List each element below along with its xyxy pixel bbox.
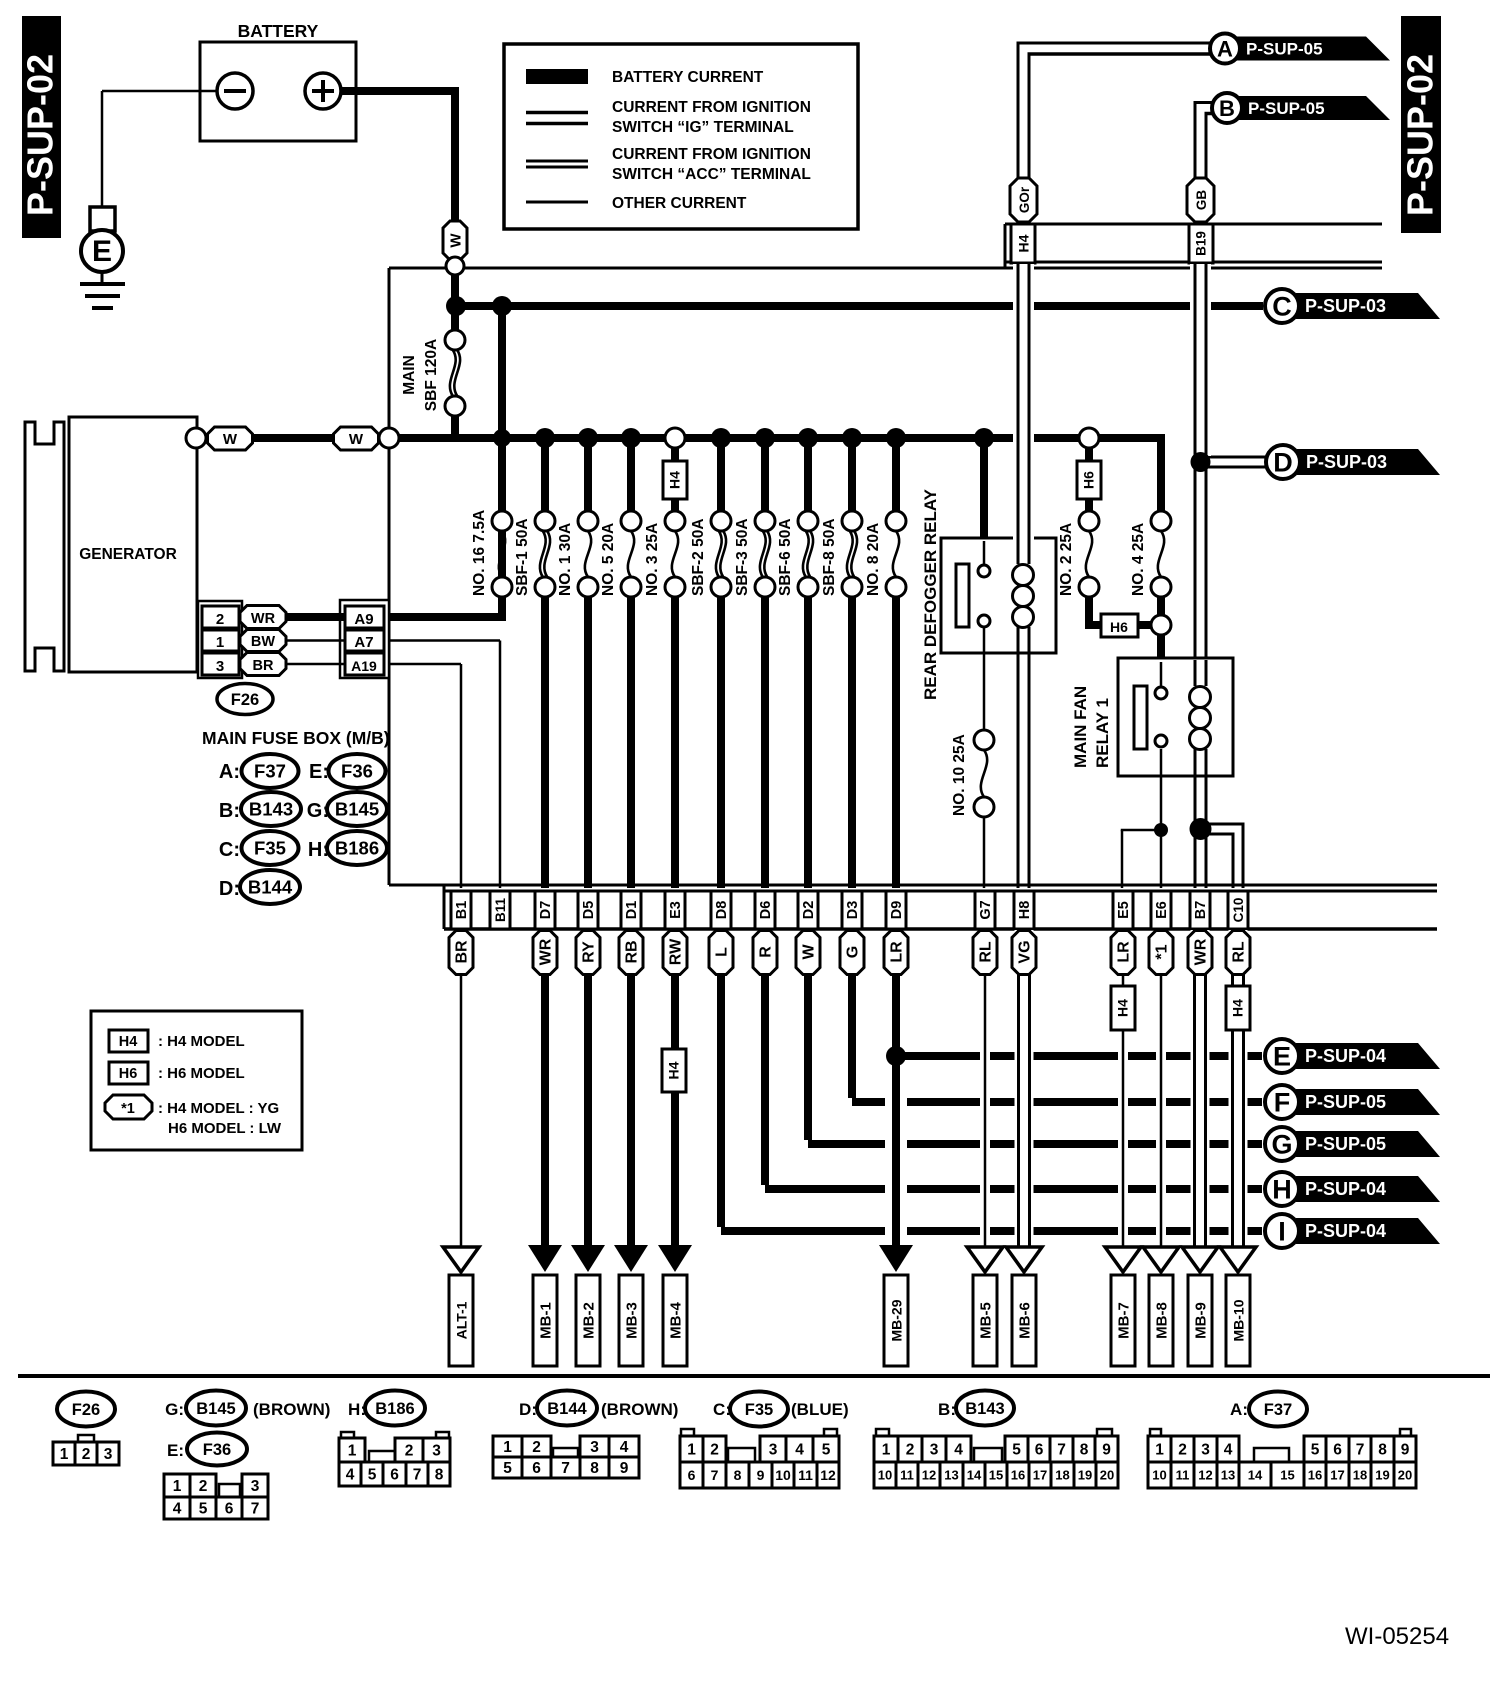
model legend box: [91, 1011, 302, 1150]
wire D9 to MB-29: [885, 1066, 907, 1240]
svg-text:2: 2: [710, 1442, 719, 1459]
svg-text:E:: E:: [167, 1441, 184, 1460]
svg-text:W: W: [223, 431, 238, 448]
svg-text:H6: H6: [1110, 619, 1128, 635]
fuse box terminal block A9 A7 A19: [340, 600, 389, 678]
svg-text:MB-2: MB-2: [581, 1302, 598, 1339]
svg-text:9: 9: [757, 1467, 765, 1483]
svg-text:P-SUP-05: P-SUP-05: [1248, 99, 1325, 118]
connector F35 pinout: [680, 1429, 839, 1488]
svg-text:F36: F36: [341, 761, 373, 782]
strip terminal D2: [798, 891, 818, 929]
svg-text:BATTERY: BATTERY: [238, 21, 319, 41]
svg-text:11: 11: [1176, 1468, 1190, 1483]
svg-text:12: 12: [1198, 1468, 1212, 1483]
svg-text:REAR DEFOGGER RELAY: REAR DEFOGGER RELAY: [921, 488, 940, 700]
svg-text:F37: F37: [254, 761, 286, 782]
fuse SBF-8 50A: [821, 428, 862, 888]
svg-text:RB: RB: [624, 940, 641, 963]
svg-text:D3: D3: [845, 901, 861, 920]
svg-text:F36: F36: [203, 1441, 231, 1459]
svg-text:(BLUE): (BLUE): [791, 1400, 849, 1419]
svg-text:H6: H6: [119, 1066, 138, 1082]
wire color LR: [884, 931, 908, 975]
wire WR to A9 (battery current): [286, 613, 345, 621]
svg-text:NO. 16 7.5A: NO. 16 7.5A: [471, 510, 488, 596]
svg-text:1: 1: [687, 1442, 696, 1459]
wire A9 to fuse NO.16: [389, 306, 506, 617]
svg-text:B: B: [1219, 96, 1235, 121]
svg-text:10: 10: [878, 1468, 892, 1483]
svg-text:GENERATOR: GENERATOR: [79, 546, 177, 563]
flag H P-SUP-04: [1265, 1172, 1440, 1206]
connector W (generator side): [208, 427, 253, 450]
svg-text:A:: A:: [219, 761, 240, 783]
svg-text:A19: A19: [351, 658, 377, 674]
connector W (battery feed): [443, 221, 467, 260]
connector B143 pinout: [874, 1429, 1118, 1488]
wire battery negative to ground: [102, 91, 217, 207]
svg-text:MB-6: MB-6: [1017, 1302, 1034, 1339]
terminal MB-4: [658, 1245, 692, 1366]
wire color BR (generator pin 3): [240, 653, 286, 676]
svg-text:H6: H6: [1081, 471, 1097, 489]
svg-text:NO. 10 25A: NO. 10 25A: [951, 734, 968, 816]
svg-text:NO. 5 20A: NO. 5 20A: [600, 523, 617, 596]
svg-text:NO. 3 25A: NO. 3 25A: [644, 523, 661, 596]
svg-text:G: G: [845, 946, 862, 958]
svg-text:F: F: [1274, 1088, 1291, 1118]
flag G P-SUP-05: [1265, 1127, 1440, 1161]
svg-text:5: 5: [822, 1442, 831, 1459]
connector B186 pinout: [339, 1432, 450, 1486]
connector W (fuse box side): [334, 427, 379, 450]
wire battery current to flag C: [456, 302, 1263, 310]
H6 model box 2: [1101, 614, 1138, 637]
wire D6 to flag H: [765, 929, 1262, 1189]
wire to MB-1: [541, 929, 549, 1245]
svg-text:C: C: [1272, 292, 1292, 322]
svg-text:LR: LR: [1116, 941, 1133, 963]
svg-text:E6: E6: [1154, 901, 1170, 919]
connector terminal B19: [1189, 224, 1213, 263]
terminal ALT-1: [443, 1247, 479, 1366]
strip terminal D3: [842, 891, 862, 929]
strip terminal D5: [578, 891, 598, 929]
svg-text:MAIN FAN: MAIN FAN: [1071, 686, 1090, 768]
svg-text:GOr: GOr: [1017, 186, 1032, 213]
connector B144 pinout: [493, 1436, 639, 1478]
battery: [200, 21, 356, 141]
svg-text:ALT-1: ALT-1: [454, 1301, 470, 1339]
junction flag D: [1191, 452, 1211, 472]
svg-text:BR: BR: [454, 940, 471, 964]
wire H6 box to main fan relay: [1138, 615, 1171, 635]
svg-text:12: 12: [922, 1468, 936, 1483]
svg-text:P-SUP-05: P-SUP-05: [1246, 40, 1323, 59]
svg-text:F37: F37: [1264, 1401, 1292, 1419]
connector F26 label: [217, 684, 273, 715]
H6 model box: [1077, 461, 1101, 499]
svg-text:H4: H4: [1016, 234, 1032, 252]
svg-text:1: 1: [503, 1439, 512, 1456]
svg-text:6: 6: [1333, 1442, 1342, 1459]
svg-text:P-SUP-04: P-SUP-04: [1305, 1179, 1386, 1199]
fuse NO. 2 25A: [1058, 499, 1099, 597]
flag B P-SUP-05: [1212, 93, 1390, 123]
svg-text:2: 2: [906, 1442, 915, 1459]
svg-text:1: 1: [348, 1443, 357, 1460]
svg-text:P-SUP-02: P-SUP-02: [1400, 54, 1441, 216]
svg-text:11: 11: [798, 1467, 813, 1483]
svg-text:H4: H4: [119, 1034, 138, 1050]
svg-text:WR: WR: [1193, 938, 1210, 965]
svg-text:G: G: [1271, 1130, 1292, 1160]
svg-text:7: 7: [413, 1467, 422, 1484]
svg-text:P-SUP-04: P-SUP-04: [1305, 1221, 1386, 1241]
wire C10 to MB-10: [1229, 930, 1248, 1247]
svg-text:SBF-8 50A: SBF-8 50A: [821, 518, 838, 596]
svg-text:D5: D5: [581, 901, 597, 920]
svg-text:C10: C10: [1231, 898, 1246, 923]
svg-text:OTHER CURRENT: OTHER CURRENT: [612, 195, 747, 212]
svg-text:1: 1: [216, 634, 224, 651]
svg-text:WI-05254: WI-05254: [1345, 1623, 1449, 1650]
wire fuse NO.2 to H6 box: [1085, 597, 1101, 629]
svg-text:4: 4: [1224, 1442, 1233, 1459]
wire D3 to flag F: [852, 929, 1262, 1102]
svg-text:RW: RW: [668, 938, 685, 965]
svg-text:4: 4: [954, 1442, 963, 1459]
svg-text:D6: D6: [758, 901, 774, 920]
svg-text:RY: RY: [581, 941, 598, 963]
svg-text:5: 5: [503, 1460, 512, 1477]
strip terminal D9: [886, 891, 906, 929]
fuse NO. 4 25A: [1130, 438, 1171, 597]
svg-text:18: 18: [1353, 1468, 1367, 1483]
svg-text:H: H: [1272, 1175, 1292, 1205]
strip terminal B1: [451, 891, 471, 929]
terminal MB-8: [1143, 1247, 1179, 1366]
wire BW to A7: [286, 639, 345, 642]
wire color GOr: [1010, 178, 1037, 222]
generator pin block: [198, 601, 242, 678]
svg-text:2: 2: [532, 1439, 541, 1456]
connector F35 label: [713, 1392, 849, 1427]
svg-text:10: 10: [775, 1467, 791, 1483]
svg-text:P-SUP-02: P-SUP-02: [20, 54, 61, 216]
svg-text:3: 3: [216, 658, 224, 675]
strip terminal D6: [755, 891, 775, 929]
svg-text:4: 4: [620, 1439, 629, 1456]
svg-text:WR: WR: [538, 938, 555, 965]
svg-text:MB-9: MB-9: [1193, 1302, 1210, 1339]
svg-text:B145: B145: [196, 1400, 235, 1418]
wire D8 to flag I: [721, 929, 1262, 1231]
svg-text:9: 9: [1102, 1442, 1111, 1459]
svg-text:H4: H4: [667, 471, 683, 489]
wire A7 to B11: [389, 641, 500, 889]
svg-text:D: D: [1273, 448, 1293, 478]
flag I P-SUP-04: [1265, 1214, 1440, 1248]
wire battery positive to main fuse box (W): [341, 91, 459, 222]
svg-text:7: 7: [1356, 1442, 1365, 1459]
wire color G: [840, 931, 864, 975]
connector B144 label: [519, 1391, 678, 1426]
svg-text:LR: LR: [889, 941, 906, 963]
svg-text:6: 6: [225, 1501, 234, 1518]
svg-text:R: R: [758, 946, 775, 958]
wire color RL: [973, 931, 997, 975]
svg-text:D8: D8: [714, 901, 730, 920]
fuse NO. 10 25A: [951, 730, 994, 817]
svg-text:4: 4: [795, 1442, 804, 1459]
wire color W: [796, 931, 820, 975]
svg-text:WR: WR: [251, 611, 276, 627]
svg-text:: H4 MODEL: : H4 MODEL: [158, 1033, 245, 1050]
svg-text:W: W: [448, 233, 465, 248]
svg-text:MB-7: MB-7: [1116, 1302, 1133, 1339]
svg-text:6: 6: [532, 1460, 541, 1477]
separator line: [18, 1374, 1490, 1378]
svg-text:B:: B:: [219, 800, 240, 822]
svg-text:B186: B186: [335, 838, 379, 859]
strip terminal E3: [665, 891, 685, 929]
connector F36 pinout: [164, 1474, 268, 1519]
svg-text:19: 19: [1078, 1468, 1092, 1483]
wire B19 to B7 and C10: [1190, 773, 1245, 888]
svg-text:17: 17: [1330, 1468, 1344, 1483]
strip terminal H8: [1014, 891, 1034, 929]
junction battery feed / C line: [446, 296, 466, 316]
svg-text:7: 7: [561, 1460, 570, 1477]
svg-text:1: 1: [60, 1446, 69, 1463]
wire color GB: [1187, 178, 1214, 222]
boundary circle generator: [186, 428, 206, 448]
terminal MB-7: [1105, 1247, 1141, 1366]
svg-text:P-SUP-03: P-SUP-03: [1306, 452, 1387, 472]
wire color WR (generator pin 2): [240, 606, 286, 629]
svg-text:2: 2: [1178, 1442, 1187, 1459]
fuse SBF-6 50A: [777, 428, 818, 888]
svg-text:5: 5: [1012, 1442, 1021, 1459]
svg-text:SWITCH “ACC” TERMINAL: SWITCH “ACC” TERMINAL: [612, 166, 811, 183]
wire to flag B (GB): [1194, 101, 1214, 178]
svg-text:: H4 MODEL : YG: : H4 MODEL : YG: [158, 1100, 279, 1117]
svg-text:6: 6: [390, 1467, 399, 1484]
terminal MB-2: [571, 1245, 605, 1366]
svg-text:D:: D:: [219, 878, 240, 900]
wire relay contact to E5/E6: [1121, 749, 1168, 888]
svg-text:F35: F35: [745, 1401, 773, 1419]
svg-text:D1: D1: [624, 901, 640, 920]
flag F P-SUP-05: [1265, 1085, 1440, 1119]
svg-text:5: 5: [368, 1467, 377, 1484]
svg-text:18: 18: [1055, 1468, 1069, 1483]
svg-text:3: 3: [930, 1442, 939, 1459]
svg-text:(BROWN): (BROWN): [253, 1400, 330, 1419]
svg-text:MAIN FUSE BOX (M/B): MAIN FUSE BOX (M/B): [202, 728, 390, 748]
svg-text:11: 11: [900, 1468, 914, 1483]
fuse SBF-3 50A: [734, 428, 775, 888]
fuse box to harness connector strip: [389, 885, 1437, 929]
svg-text:B145: B145: [335, 799, 379, 820]
wire B7 to MB-9: [1191, 930, 1210, 1247]
svg-text:MB-10: MB-10: [1231, 1299, 1247, 1341]
boundary circle battery feed: [446, 257, 464, 275]
wire relay contact to fuse NO.10: [983, 627, 986, 730]
wire to flag A (GOr): [1017, 42, 1212, 179]
svg-text:P-SUP-04: P-SUP-04: [1305, 1046, 1386, 1066]
svg-text:P-SUP-05: P-SUP-05: [1305, 1134, 1386, 1154]
svg-text:G:: G:: [165, 1400, 184, 1419]
svg-text:12: 12: [820, 1467, 836, 1483]
junction circle on fuse box boundary: [451, 260, 459, 306]
wire D9 to flag E: [896, 1052, 1262, 1060]
wire color R: [753, 931, 777, 975]
svg-text:CURRENT FROM IGNITION: CURRENT FROM IGNITION: [612, 99, 811, 116]
svg-text:B144: B144: [547, 1400, 587, 1418]
svg-text:B19: B19: [1194, 231, 1209, 256]
svg-text:8: 8: [1378, 1442, 1387, 1459]
svg-text:MB-8: MB-8: [1154, 1302, 1171, 1339]
wire color RB: [619, 931, 643, 975]
svg-text:16: 16: [1011, 1468, 1025, 1483]
svg-text:SBF-2 50A: SBF-2 50A: [690, 518, 707, 596]
wire color RL: [1226, 931, 1250, 975]
svg-text:P-SUP-03: P-SUP-03: [1305, 296, 1386, 316]
svg-text:B186: B186: [375, 1400, 414, 1418]
svg-text:3: 3: [590, 1439, 599, 1456]
wire color WR: [533, 931, 557, 975]
wire color WR: [1188, 931, 1212, 975]
terminal MB-9: [1182, 1247, 1218, 1366]
page tab right P-SUP-02: [1400, 16, 1442, 233]
strip terminal B7: [1190, 891, 1210, 929]
wire H8 to MB-6 (VG): [1015, 930, 1034, 1247]
main fan relay 1: [1071, 658, 1233, 776]
wire E5 to MB-7: [1118, 930, 1128, 1247]
svg-text:2: 2: [216, 611, 224, 628]
terminal MB-29: [879, 1245, 913, 1366]
svg-text:7: 7: [1057, 1442, 1066, 1459]
svg-text:NO. 1 30A: NO. 1 30A: [557, 523, 574, 596]
strip terminal D8: [711, 891, 731, 929]
H4 model box on C10 wire: [1226, 986, 1250, 1030]
wire to flag D: [1200, 457, 1266, 467]
svg-text:3: 3: [769, 1442, 778, 1459]
boundary circle bus: [379, 428, 399, 448]
strip terminal E5: [1113, 891, 1133, 929]
svg-text:SBF-6 50A: SBF-6 50A: [777, 518, 794, 596]
svg-text:W: W: [801, 944, 818, 960]
svg-text:RELAY 1: RELAY 1: [1093, 698, 1112, 768]
H4 model box on E3 wire: [662, 1049, 686, 1092]
svg-text:B1: B1: [454, 901, 470, 920]
main fuse box boundary: [389, 268, 1382, 885]
svg-text:2: 2: [199, 1478, 208, 1495]
flag D P-SUP-03: [1266, 445, 1440, 479]
ground connector E: [81, 230, 123, 272]
svg-text:8: 8: [435, 1467, 444, 1484]
svg-text:VG: VG: [1017, 940, 1034, 963]
svg-text:H4: H4: [1230, 999, 1246, 1017]
svg-text:F35: F35: [254, 838, 286, 859]
svg-text:BW: BW: [251, 634, 275, 650]
wire E3 to MB-4: [671, 929, 679, 1245]
generator body connector bracket: [25, 422, 64, 671]
svg-text:B11: B11: [493, 898, 508, 923]
svg-text:SBF 120A: SBF 120A: [423, 339, 440, 411]
wire color L: [709, 931, 733, 975]
wire fuse NO.4 to relay: [1157, 597, 1165, 662]
terminal MB-6: [1006, 1247, 1042, 1366]
svg-text:P-SUP-05: P-SUP-05: [1305, 1092, 1386, 1112]
svg-text:4: 4: [346, 1467, 355, 1484]
svg-text:19: 19: [1375, 1468, 1389, 1483]
strip terminal B11: [490, 891, 510, 929]
fuse MAIN SBF 120A: [401, 306, 465, 438]
svg-text:13: 13: [944, 1468, 958, 1483]
svg-text:SWITCH “IG” TERMINAL: SWITCH “IG” TERMINAL: [612, 119, 794, 136]
ground symbol: [80, 272, 125, 308]
svg-text:13: 13: [1221, 1468, 1235, 1483]
svg-text:B143: B143: [965, 1400, 1004, 1418]
svg-text:B144: B144: [248, 877, 293, 898]
connector F26 pinout: [53, 1392, 119, 1466]
svg-text:E5: E5: [1116, 901, 1132, 919]
wire B19 vertical to main fan relay and B7: [1190, 264, 1211, 456]
wire color BR: [449, 931, 473, 975]
junction: [493, 429, 511, 447]
svg-text:D9: D9: [889, 901, 905, 920]
strip terminal D7: [535, 891, 555, 929]
svg-text:W: W: [349, 431, 364, 448]
svg-text:3: 3: [104, 1446, 113, 1463]
svg-text:B7: B7: [1193, 901, 1209, 920]
wire color BW (generator pin 1): [240, 630, 286, 652]
fuse NO. 5 20A: [600, 428, 641, 888]
legend box: [504, 44, 858, 229]
svg-text:G7: G7: [978, 900, 994, 919]
main bus bar (battery current): [398, 434, 1165, 442]
wire bus H6 branch: [1079, 428, 1099, 461]
svg-text:MAIN: MAIN: [401, 355, 418, 395]
svg-text:17: 17: [1033, 1468, 1047, 1483]
svg-text:C:: C:: [219, 839, 240, 861]
wire color RY: [576, 931, 600, 975]
svg-text:10: 10: [1152, 1468, 1166, 1483]
svg-text:MB-4: MB-4: [668, 1302, 685, 1339]
svg-text:8: 8: [590, 1460, 599, 1477]
svg-text:NO. 2 25A: NO. 2 25A: [1058, 523, 1075, 596]
wire color LR: [1111, 931, 1135, 975]
fuse NO. 16 7.5A: [471, 510, 512, 597]
svg-text:A9: A9: [354, 611, 373, 628]
flag C P-SUP-03: [1265, 289, 1440, 323]
svg-text:BR: BR: [253, 658, 274, 674]
fuse SBF-2 50A: [690, 428, 731, 888]
svg-text:L: L: [714, 947, 731, 957]
svg-text:2: 2: [82, 1446, 91, 1463]
svg-text:D2: D2: [801, 901, 817, 920]
svg-text:A: A: [1217, 36, 1233, 61]
connector B145 label: [165, 1391, 330, 1426]
svg-text:7: 7: [251, 1501, 260, 1518]
svg-text:NO. 4 25A: NO. 4 25A: [1130, 523, 1147, 596]
svg-text:20: 20: [1100, 1468, 1114, 1483]
bulkhead connector band: [1005, 224, 1382, 268]
